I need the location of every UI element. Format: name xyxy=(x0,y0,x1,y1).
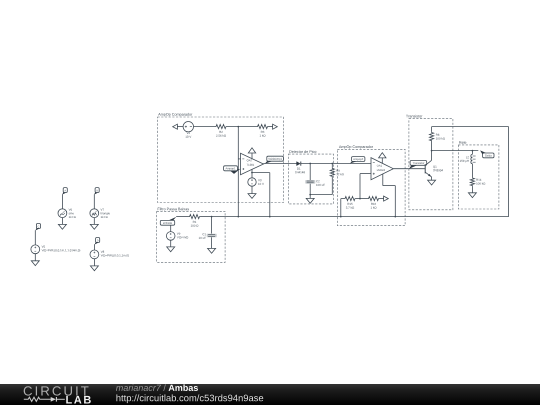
wire V- to right xyxy=(252,172,270,174)
wire V5 bottom xyxy=(34,254,36,261)
flag node A (on V6) xyxy=(62,188,67,195)
wire V2 to R2 xyxy=(194,126,216,128)
wire V3 to ground xyxy=(251,186,253,193)
wire top loop horizontal xyxy=(432,126,509,128)
wire R16 to terminal xyxy=(380,198,384,200)
wire op-amp1 V- stem xyxy=(251,169,253,177)
wire bottom of detector xyxy=(310,194,332,196)
voltage source V7 (triangle) xyxy=(90,209,110,218)
wire V7 top xyxy=(93,194,95,209)
wire V8 bottom xyxy=(93,259,95,266)
wire op-amp1 output to D1 xyxy=(264,163,297,165)
dashed box Detector de Pico xyxy=(288,150,333,204)
wire op-amp2 + input left xyxy=(360,173,371,175)
wire + input down xyxy=(359,174,361,199)
wire V- down to rail xyxy=(394,186,396,217)
dashed box Filtro Passa Baixas xyxy=(157,208,225,263)
capacitor C1 (highlighted) xyxy=(199,217,217,249)
voltage source V5 (PWL) xyxy=(31,245,80,254)
dashed box Transistor xyxy=(406,115,453,210)
voltage source V3 xyxy=(248,178,264,186)
diode D1 1N4148 xyxy=(295,162,305,174)
flag Transistor xyxy=(409,161,427,169)
power arrow op-amp1 V+ xyxy=(248,148,255,153)
resistor R2 xyxy=(215,125,227,137)
flag SaidaAmp1 xyxy=(265,156,284,163)
wire row left down to rail xyxy=(340,199,342,217)
wire stub to ground xyxy=(309,195,311,199)
junction node peak xyxy=(309,163,311,165)
power arrow op-amp2 V+ xyxy=(379,153,386,158)
wire top loop right vertical xyxy=(508,127,510,217)
wire R9 bottom stub xyxy=(331,177,333,194)
wire V6 bottom xyxy=(61,218,63,225)
flag node B (on V7) xyxy=(94,188,99,195)
voltage source V9 xyxy=(166,232,188,241)
wire V8 top xyxy=(93,244,95,250)
wire V7 bottom xyxy=(93,218,95,225)
wire V6 top xyxy=(61,194,63,209)
wire R14 to ground xyxy=(471,186,473,192)
resistor R15 xyxy=(344,197,356,209)
wire V2 left xyxy=(177,126,183,128)
wire R6 top stub xyxy=(431,127,433,132)
wire op-amp1 V+ stem xyxy=(251,153,253,159)
ground (C1) xyxy=(208,248,216,253)
wire D1 to op-amp2 xyxy=(301,163,371,165)
wire op-amp2 V- stem xyxy=(382,174,384,186)
junction relay node xyxy=(472,150,474,152)
ground (V7) xyxy=(90,224,98,229)
ground (V5) xyxy=(31,261,39,266)
transistor Q1 2N3904 xyxy=(425,151,443,181)
resistor R1 xyxy=(189,215,201,227)
inductor L2 xyxy=(460,151,476,164)
credit text xyxy=(116,384,161,391)
wire bottom rail xyxy=(212,216,509,218)
ground (V6) xyxy=(58,224,66,229)
voltage source V6 (sine) xyxy=(58,209,76,218)
ground (V9) xyxy=(167,247,175,252)
wire L2 to R14 xyxy=(471,164,473,178)
terminal (right, box3) xyxy=(384,196,389,201)
wire entrada to R1 xyxy=(176,216,188,218)
wire junction down to rail xyxy=(237,127,239,217)
resistor R9 xyxy=(330,168,344,178)
dashed box AmpOp Comparador 1 xyxy=(158,113,284,203)
ground (Q1 emitter) xyxy=(428,180,436,185)
resistor R14 xyxy=(470,177,485,186)
logo CIRCUIT LAB xyxy=(24,386,89,395)
wire junction to C2 xyxy=(309,164,311,181)
op-amp U2 OA1 LM324 xyxy=(371,158,393,180)
wire op-amp2 output to Q1 base xyxy=(393,168,425,170)
wire row left end xyxy=(341,198,344,200)
flag entrada xyxy=(160,217,176,225)
wire stub to op-amp inverting input xyxy=(238,158,240,160)
flag node C (on V5) xyxy=(35,224,40,231)
junction feedback node xyxy=(359,198,361,200)
wire collector row to relay xyxy=(432,150,479,152)
junction at op-amp1 V- xyxy=(251,172,253,174)
wire V- to right xyxy=(383,185,396,187)
dashed box AmpOp Comparador 2 xyxy=(337,145,405,225)
resistor R3 xyxy=(257,125,269,137)
wire C2 to bottom xyxy=(309,184,311,195)
flag Ampop2 xyxy=(350,157,365,164)
wire V5 top xyxy=(34,230,36,245)
dashed box Rele xyxy=(458,141,499,209)
junction node at R2/R3 xyxy=(237,126,239,128)
op-amp U1 OA2 TL081 xyxy=(241,153,264,174)
junction rail x=238 xyxy=(237,216,239,218)
ground (V8) xyxy=(90,266,98,271)
junction node filter output xyxy=(211,216,213,218)
flag Ampop1 xyxy=(224,166,241,174)
wire entrada to V9 xyxy=(170,225,172,232)
junction node R9 top xyxy=(331,163,333,165)
wire op-amp2 V+ stem xyxy=(381,158,383,163)
ground (V3) xyxy=(248,194,256,199)
junction rail x=270 xyxy=(269,216,271,218)
wire R15 to R16 xyxy=(356,198,368,200)
junction rail x=395 xyxy=(394,216,396,218)
wire R1 to junction xyxy=(201,216,212,218)
voltage source V8 (PWL) xyxy=(90,250,129,259)
wire R9 top stub xyxy=(331,164,333,168)
wire down to rail (x=270) xyxy=(269,173,271,217)
resistor R6 xyxy=(430,132,445,142)
terminal (left, box1) xyxy=(173,124,178,129)
junction collector node xyxy=(431,150,433,152)
junction rail x=341 xyxy=(340,216,342,218)
flag node D (on V8) xyxy=(95,238,100,245)
wire R2 to R3 xyxy=(227,126,257,128)
ground (relay) xyxy=(468,193,476,198)
wire V9 to ground xyxy=(170,240,172,247)
resistor R16 xyxy=(368,197,380,209)
terminal (right, box1) xyxy=(273,124,278,129)
ground (detector) xyxy=(306,198,314,203)
voltage source V2 xyxy=(183,122,193,138)
flag Saida xyxy=(480,150,494,157)
wire R3 to terminal xyxy=(269,126,273,128)
capacitor C2 (highlighted) xyxy=(305,180,325,186)
junction detector bottom xyxy=(309,194,311,196)
wire R6 bottom stub xyxy=(431,142,433,151)
